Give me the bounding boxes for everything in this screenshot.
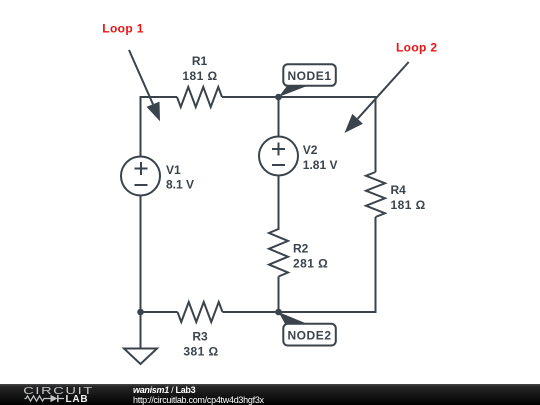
svg-text:R3: R3 bbox=[192, 330, 208, 344]
resistor R1 bbox=[177, 54, 222, 107]
wire: top horizontal left segment (corner to R1) bbox=[141, 96, 178, 98]
node junction dot at ground bbox=[137, 309, 144, 316]
wire: bottom horizontal right segment (R3 to bottom-right corner) bbox=[223, 311, 377, 313]
logo resistor squiggle and diode bbox=[25, 395, 65, 402]
wire: top horizontal right segment (R1 to top-right corner) bbox=[222, 96, 376, 98]
annotation Loop 1 arrow bbox=[129, 50, 160, 121]
resistor R3 bbox=[178, 302, 223, 359]
svg-text:Loop 2: Loop 2 bbox=[396, 41, 437, 55]
svg-text:wanism1 / Lab3: wanism1 / Lab3 bbox=[133, 385, 196, 395]
svg-text:NODE2: NODE2 bbox=[287, 329, 331, 343]
svg-text:R4: R4 bbox=[391, 183, 407, 197]
svg-text:V2: V2 bbox=[303, 143, 318, 157]
svg-text:http://circuitlab.com/cp4tw4d3: http://circuitlab.com/cp4tw4d3hgf3x bbox=[133, 395, 265, 405]
svg-text:181 Ω: 181 Ω bbox=[391, 198, 426, 212]
voltage source V2 bbox=[259, 137, 338, 176]
svg-text:181 Ω: 181 Ω bbox=[182, 69, 217, 83]
svg-text:Loop 1: Loop 1 bbox=[102, 22, 143, 36]
svg-text:V1: V1 bbox=[166, 163, 181, 177]
svg-text:8.1 V: 8.1 V bbox=[166, 178, 194, 192]
annotation Loop 2 arrow bbox=[345, 62, 409, 133]
svg-text:LAB: LAB bbox=[66, 394, 89, 405]
svg-text:1.81 V: 1.81 V bbox=[303, 158, 338, 172]
wire: right vertical lower segment (R4 bottom to bottom-right corner) bbox=[375, 217, 377, 313]
voltage source V1 bbox=[121, 157, 194, 196]
ground bbox=[124, 312, 157, 364]
node label NODE1 bbox=[279, 64, 336, 97]
wire: left vertical lower segment (V1 bottom to bottom-left node) bbox=[140, 196, 142, 313]
svg-text:R2: R2 bbox=[293, 242, 309, 256]
wire: middle vertical upper segment (NODE1 to V2 top) bbox=[278, 97, 280, 137]
wire: left vertical upper segment (corner to V1 top) bbox=[140, 96, 142, 157]
resistor R4 bbox=[366, 172, 426, 217]
node junction dot NODE1 bbox=[275, 94, 282, 101]
svg-text:R1: R1 bbox=[192, 54, 208, 68]
node junction dot NODE2 bbox=[275, 309, 282, 316]
resistor R2 bbox=[269, 229, 328, 277]
wire: middle vertical segment (V2 bottom to R2 top) bbox=[278, 176, 280, 231]
wire: middle vertical lower segment (R2 bottom to NODE2) bbox=[278, 277, 280, 313]
wire: bottom horizontal left segment (node to R3) bbox=[140, 311, 178, 313]
wire: right vertical upper segment (top-right corner to R4 top) bbox=[375, 96, 377, 172]
svg-text:NODE1: NODE1 bbox=[287, 69, 331, 83]
footer bar bbox=[0, 384, 540, 405]
logo CIRCUIT text bbox=[23, 385, 94, 397]
svg-text:281 Ω: 281 Ω bbox=[293, 257, 328, 271]
svg-text:381 Ω: 381 Ω bbox=[183, 345, 218, 359]
node label NODE2 bbox=[279, 312, 336, 346]
